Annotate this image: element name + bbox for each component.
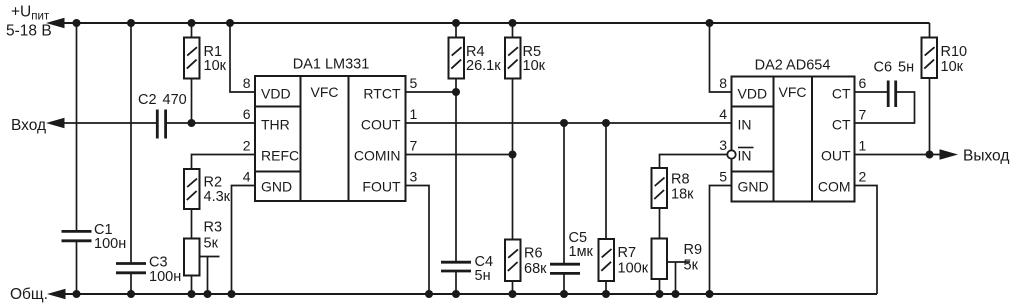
- svg-text:DA2 AD654: DA2 AD654: [755, 58, 831, 74]
- svg-text:C2: C2: [138, 92, 157, 108]
- svg-text:R3: R3: [204, 220, 223, 236]
- svg-text:5к: 5к: [204, 236, 219, 252]
- trimmer R9 5k: [652, 239, 703, 299]
- svg-text:6: 6: [859, 75, 867, 91]
- wire DA2 INinv pin3 to R8: [660, 155, 728, 169]
- svg-text:5н: 5н: [898, 60, 914, 76]
- node Vhod input arrow: [46, 118, 65, 129]
- capacitor C2 470: [138, 92, 187, 139]
- svg-text:Общ.: Общ.: [10, 286, 48, 303]
- svg-text:REFC: REFC: [261, 148, 299, 164]
- op-amp DA1 LM331 box: [243, 57, 418, 202]
- node +U supply arrow: [46, 18, 65, 29]
- resistor R7 100k: [599, 239, 649, 298]
- svg-text:470: 470: [163, 92, 187, 108]
- svg-text:R10: R10: [941, 44, 968, 60]
- node IN inversion overline: [738, 147, 754, 149]
- wire top supply rail: [58, 22, 930, 24]
- node pin3 inversion bubble: [727, 150, 735, 158]
- svg-text:R8: R8: [671, 172, 690, 188]
- resistor R5 10k: [505, 19, 546, 240]
- trimmer R3 5k: [184, 220, 222, 299]
- svg-text:6: 6: [243, 106, 251, 122]
- op-amp DA2 AD654 box: [719, 58, 866, 202]
- svg-text:CT: CT: [832, 117, 851, 133]
- svg-text:OUT: OUT: [821, 148, 851, 164]
- svg-text:VFC: VFC: [311, 84, 339, 100]
- resistor R2 4.3k: [184, 169, 231, 209]
- node ground arrow: [47, 289, 66, 300]
- svg-text:COMIN: COMIN: [354, 148, 401, 164]
- wire COMIN pin7 to R5/R6 node: [406, 151, 517, 159]
- resistor R1 10k: [184, 19, 227, 123]
- svg-text:1: 1: [859, 138, 867, 154]
- capacitor C5 1mk: [550, 230, 594, 298]
- wire ground rail: [59, 293, 877, 295]
- wire left supply branch C1: [73, 19, 81, 298]
- svg-text:8: 8: [243, 75, 251, 91]
- svg-text:10к: 10к: [523, 58, 546, 74]
- capacitor C3 100n: [116, 255, 181, 286]
- svg-text:R9: R9: [684, 242, 703, 258]
- svg-text:5: 5: [719, 169, 727, 185]
- svg-text:2: 2: [859, 169, 867, 185]
- wire C2 to THR pin6: [166, 119, 255, 127]
- wire OUT pin1 to output: [855, 151, 942, 159]
- svg-text:8: 8: [719, 75, 727, 91]
- wire RTCT pin5 to R4/C4 node: [406, 88, 461, 96]
- svg-text:1: 1: [410, 106, 418, 122]
- svg-text:GND: GND: [738, 179, 769, 195]
- wire R4 node down to C4: [455, 92, 457, 262]
- capacitor C6 5n: [855, 60, 915, 124]
- wire DA1 VDD pin8 to rail: [226, 19, 255, 92]
- svg-text:1мк: 1мк: [569, 244, 594, 260]
- svg-text:3: 3: [410, 169, 418, 185]
- svg-text:VDD: VDD: [261, 86, 291, 102]
- svg-text:4: 4: [243, 169, 251, 185]
- svg-text:FOUT: FOUT: [362, 179, 401, 195]
- svg-text:18к: 18к: [671, 187, 694, 203]
- wire COUT node down to C5: [563, 123, 565, 264]
- resistor R10 10k: [922, 23, 968, 155]
- svg-text:7: 7: [859, 107, 867, 123]
- node +Upit label: [6, 4, 52, 40]
- wire DA2 VDD pin8 to rail: [706, 19, 732, 92]
- svg-text:RTCT: RTCT: [363, 86, 401, 102]
- wire second supply branch C3: [127, 19, 135, 298]
- wire R2 to R3: [191, 209, 193, 239]
- wire DA2 COM pin2 to ground: [855, 186, 878, 295]
- resistor R8 18k: [652, 168, 695, 208]
- wire COUT pin1 to DA2 IN pin4: [406, 119, 732, 127]
- svg-text:3: 3: [719, 137, 727, 153]
- svg-text:7: 7: [410, 138, 418, 154]
- svg-text:2: 2: [243, 138, 251, 154]
- resistor R6 68k: [505, 240, 547, 299]
- wire DA2 GND pin5 to ground: [706, 186, 732, 299]
- svg-text:26.1к: 26.1к: [466, 58, 501, 74]
- svg-text:C6: C6: [874, 60, 893, 76]
- svg-text:5-18 В: 5-18 В: [6, 23, 52, 40]
- svg-text:10к: 10к: [941, 59, 964, 75]
- svg-text:THR: THR: [261, 117, 290, 133]
- svg-text:4: 4: [719, 106, 727, 122]
- svg-text:COM: COM: [818, 179, 851, 195]
- svg-text:DA1 LM331: DA1 LM331: [293, 57, 370, 73]
- svg-text:Выход: Выход: [963, 148, 1009, 165]
- svg-text:68к: 68к: [524, 261, 547, 277]
- svg-text:VDD: VDD: [738, 86, 768, 102]
- svg-text:4.3к: 4.3к: [204, 189, 231, 205]
- wire R8 to R9: [659, 208, 661, 239]
- node Vyhod output arrow: [940, 149, 959, 160]
- svg-text:CT: CT: [832, 86, 851, 102]
- svg-text:IN: IN: [738, 117, 752, 133]
- svg-text:Вход: Вход: [11, 117, 46, 134]
- svg-text:R7: R7: [618, 245, 637, 261]
- svg-text:GND: GND: [261, 179, 292, 195]
- svg-text:10к: 10к: [204, 58, 227, 74]
- svg-text:100н: 100н: [149, 269, 181, 285]
- svg-text:R6: R6: [524, 246, 543, 262]
- svg-text:+Uпит: +Uпит: [11, 4, 50, 23]
- wire COUT node down to R7: [605, 123, 607, 239]
- capacitor C4 5n: [441, 254, 493, 298]
- wire input line to C2: [58, 122, 157, 124]
- svg-text:5: 5: [410, 75, 418, 91]
- svg-text:COUT: COUT: [361, 117, 401, 133]
- wire REFC pin2 to R2: [192, 155, 256, 170]
- capacitor C1 100n: [62, 222, 127, 252]
- svg-text:5к: 5к: [684, 258, 699, 274]
- svg-text:100н: 100н: [94, 236, 126, 252]
- resistor R4 26.1k: [449, 19, 502, 92]
- svg-text:IN: IN: [738, 148, 752, 164]
- svg-text:VFC: VFC: [779, 84, 807, 100]
- wire FOUT pin3 to ground: [406, 186, 434, 299]
- svg-text:5н: 5н: [475, 268, 491, 284]
- wire DA1 GND pin4 to ground: [228, 186, 256, 299]
- svg-text:100к: 100к: [618, 261, 649, 277]
